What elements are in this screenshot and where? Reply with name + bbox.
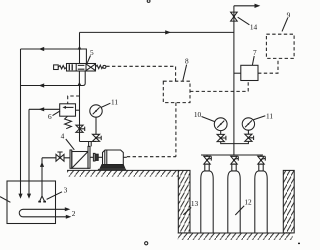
pump 4 top bracket	[79, 141, 81, 143]
speck bottom	[145, 242, 148, 245]
svg-text:9: 9	[287, 11, 291, 20]
heater symbol 3	[40, 196, 45, 201]
cylinder 3 neck	[259, 164, 263, 171]
U-tube coil 2	[19, 209, 66, 217]
cylinder 2 neck	[232, 164, 236, 171]
wire suction riser	[41, 158, 43, 196]
wire riser B down to tank	[28, 109, 30, 194]
speck top	[147, 0, 150, 2]
dashed from box 8 down to motor	[175, 103, 177, 157]
label pointer 1	[0, 197, 10, 203]
svg-text:4: 4	[61, 132, 65, 141]
valve 5 left solenoid box	[54, 65, 59, 70]
speck bottom right	[298, 242, 300, 244]
wire valve B to connector	[95, 140, 97, 142]
flow arrow left on y109.3	[39, 107, 45, 111]
dashed box7 to box9	[258, 58, 278, 73]
svg-text:8: 8	[185, 57, 189, 66]
wire return line y85.5	[21, 85, 80, 87]
wire relief valve 6 right connect	[76, 109, 80, 111]
pump 4 left flange	[70, 150, 72, 168]
wire manifold	[201, 154, 263, 156]
control box 8 dashed	[163, 81, 190, 102]
svg-text:11: 11	[266, 112, 273, 121]
dashed riser to box 7 bottom	[247, 81, 249, 92]
svg-text:3: 3	[64, 186, 68, 195]
cylinder 2 body	[228, 171, 240, 233]
motor rib	[105, 150, 107, 164]
valve under gauge 11	[245, 134, 254, 141]
svg-text:7: 7	[253, 48, 257, 57]
cylinder 3 body	[255, 171, 267, 233]
cylinder 1 neck	[205, 164, 209, 171]
pilot dashed line to relief valve 6	[68, 96, 80, 104]
label pointer 5	[87, 56, 90, 63]
flow arrow up junction y85	[78, 82, 82, 86]
box 9 dashed	[266, 34, 294, 58]
valve 5 right pilot circle	[103, 65, 106, 68]
cylinder valve 1	[204, 156, 212, 164]
dashed motor shaft line	[127, 156, 176, 158]
pump 4 body	[72, 152, 88, 169]
valve A on main drop	[76, 125, 85, 132]
wire A-B connector y141.5	[80, 141, 97, 143]
ground under pump and motor	[67, 170, 178, 176]
pit floor top line	[178, 232, 293, 234]
svg-text:13: 13	[191, 199, 199, 208]
cylinder valve 3	[258, 156, 266, 164]
flow arrow down into tank (left)	[18, 194, 22, 199]
label pointer 14	[238, 17, 250, 25]
motor base	[100, 165, 125, 169]
relief valve 6 box	[60, 104, 76, 116]
label pointer 8	[183, 65, 187, 81]
wire return line y49	[21, 49, 87, 64]
pump 4 diagonal	[72, 152, 88, 169]
cylinder valve 2	[231, 156, 239, 164]
valve 5 left spring	[58, 66, 66, 69]
flow arrow right lower	[66, 215, 72, 219]
wire pump inlet	[42, 157, 70, 159]
svg-text:6: 6	[48, 112, 52, 121]
gauge 11 left	[90, 105, 102, 135]
tank 1	[7, 181, 56, 224]
flow arrow down into tank (B)	[27, 194, 31, 199]
dashed from box 8 right to below box 7	[190, 90, 248, 92]
gauge 11 right	[242, 118, 254, 134]
electric dashed line from valve5 to box 8	[106, 66, 175, 81]
label pointer 6	[53, 111, 61, 116]
wire top outlet with arrow	[234, 5, 256, 7]
label pointer 7	[252, 56, 254, 65]
pit floor	[178, 233, 293, 240]
flow arrow left on y49	[39, 47, 45, 51]
label pointer 4	[66, 139, 75, 150]
motor body	[103, 150, 124, 165]
label pointer 9	[282, 18, 288, 31]
inlet valve at pump	[56, 152, 64, 161]
label pointer 11 right	[253, 116, 265, 120]
flow arrow right on header	[165, 30, 171, 34]
coupling	[90, 156, 93, 158]
flow arrow up junction	[78, 46, 82, 50]
pit left wall 13	[178, 170, 190, 233]
valve 14	[231, 12, 238, 21]
wire main drop from valve5 to pump	[79, 86, 81, 142]
pump 4 right flange	[88, 146, 90, 168]
pit right wall	[283, 170, 294, 233]
label pointer 3	[47, 192, 62, 200]
label pointer 11 left	[101, 103, 111, 107]
cylinder 1 body	[201, 171, 213, 233]
svg-text:10: 10	[194, 110, 202, 119]
wire top header line	[80, 31, 234, 33]
svg-text:14: 14	[250, 23, 258, 32]
wire gauge10 tee	[221, 142, 234, 144]
label pointer 10	[202, 117, 216, 122]
wire valve5 upper-left riser	[79, 32, 81, 63]
relief valve 6 internal arrow	[65, 106, 74, 108]
wire main to box 7	[234, 72, 241, 74]
instrument box 7	[241, 65, 258, 80]
valve under gauge 10	[217, 134, 226, 141]
directional valve 5 body	[67, 64, 96, 72]
wire valve5 bottom-right port jog	[79, 71, 85, 86]
flow arrow left on y85.5	[39, 83, 45, 87]
wire from relief valve 6 to left riser B	[29, 108, 60, 110]
svg-text:11: 11	[111, 98, 118, 107]
wire left riser to tank	[20, 49, 22, 194]
label pointer 12	[235, 206, 244, 215]
flow arrow right upper	[65, 207, 71, 211]
wire pump inlet drop	[89, 142, 92, 147]
relief valve 6 spring	[65, 116, 72, 129]
valve 5 right spring	[96, 65, 103, 68]
ground top line	[67, 169, 178, 171]
flow arrow up suction	[40, 162, 44, 167]
label pointer 13	[183, 208, 191, 215]
svg-text:12: 12	[244, 198, 252, 207]
motor shaft	[123, 156, 127, 158]
gauge 10	[214, 118, 227, 135]
svg-text:2: 2	[72, 209, 76, 218]
wire main right vertical	[233, 6, 235, 155]
valve B below left gauge	[92, 134, 101, 141]
wire manifold drops	[207, 155, 261, 156]
wire valve5 bottom-left port	[78, 71, 80, 86]
svg-text:5: 5	[90, 48, 94, 57]
wire gauge11 tee	[234, 141, 249, 143]
